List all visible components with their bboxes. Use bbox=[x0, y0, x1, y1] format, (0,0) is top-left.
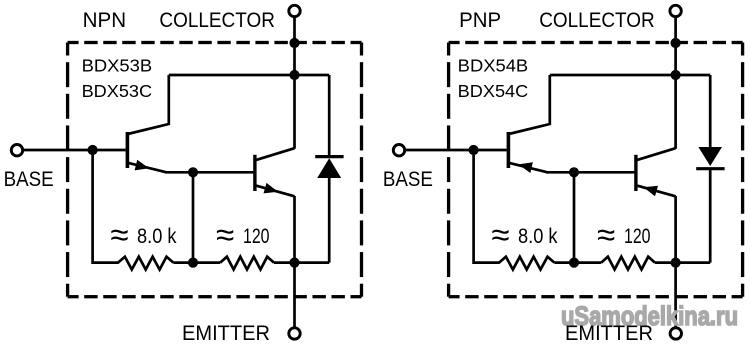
svg-text:8.0 k: 8.0 k bbox=[137, 224, 177, 248]
svg-text:BASE: BASE bbox=[4, 168, 54, 191]
svg-text:≈: ≈ bbox=[110, 216, 128, 253]
svg-text:≈: ≈ bbox=[597, 216, 615, 253]
svg-text:BASE: BASE bbox=[383, 168, 433, 191]
svg-text:BDX54B: BDX54B bbox=[458, 55, 529, 75]
svg-text:8.0 k: 8.0 k bbox=[518, 224, 558, 248]
svg-text:≈: ≈ bbox=[491, 216, 509, 253]
svg-text:BDX53B: BDX53B bbox=[82, 55, 153, 75]
svg-text:EMITTER: EMITTER bbox=[565, 322, 653, 344]
svg-text:NPN: NPN bbox=[83, 9, 127, 32]
svg-text:EMITTER: EMITTER bbox=[182, 322, 270, 344]
svg-text:120: 120 bbox=[243, 224, 270, 248]
svg-text:BDX54C: BDX54C bbox=[458, 81, 529, 101]
svg-text:BDX53C: BDX53C bbox=[82, 81, 152, 101]
svg-text:≈: ≈ bbox=[216, 216, 234, 253]
svg-text:120: 120 bbox=[624, 224, 651, 248]
svg-text:COLLECTOR: COLLECTOR bbox=[159, 9, 275, 32]
svg-text:PNP: PNP bbox=[459, 9, 501, 32]
svg-text:COLLECTOR: COLLECTOR bbox=[539, 9, 655, 32]
